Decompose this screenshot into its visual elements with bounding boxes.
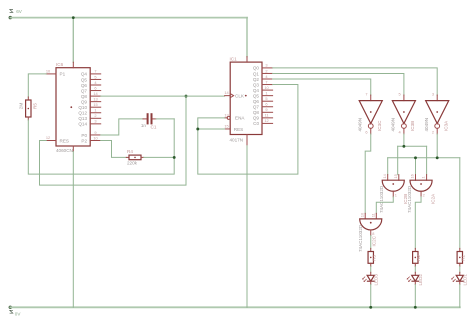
svg-text:4049N: 4049N bbox=[424, 118, 429, 132]
wire IC3A net to R1 bbox=[459, 158, 461, 249]
IC6 4060 counter body bbox=[56, 62, 90, 153]
inverter IC3A bbox=[424, 91, 449, 134]
IC1 pin ENA (13) bbox=[224, 112, 245, 120]
junction on 6V rail at IC6 VDD bbox=[72, 16, 75, 19]
IC1 right pins Q0-Q9,C0 bbox=[262, 68, 273, 124]
svg-text:11: 11 bbox=[264, 113, 268, 118]
wire Q2 to IC3C bbox=[273, 79, 371, 95]
svg-text:5: 5 bbox=[94, 74, 96, 79]
svg-text:LED2: LED2 bbox=[418, 274, 423, 286]
wire R3 to LED3 bbox=[370, 266, 372, 272]
svg-text:R4: R4 bbox=[127, 149, 133, 154]
junction IC3B output node bbox=[402, 145, 405, 148]
svg-text:4049N: 4049N bbox=[358, 118, 363, 132]
IC1 right pin numbers bbox=[264, 63, 269, 124]
svg-text:13: 13 bbox=[224, 112, 228, 117]
wire P2 to R4 bbox=[101, 141, 127, 158]
svg-text:Q14: Q14 bbox=[78, 122, 87, 127]
svg-text:11: 11 bbox=[370, 213, 375, 217]
svg-text:RES: RES bbox=[234, 127, 243, 132]
svg-text:7: 7 bbox=[94, 69, 96, 74]
IC6 VDD pin stub bbox=[72, 62, 74, 67]
svg-text:0V: 0V bbox=[15, 312, 22, 317]
junction oscillator node bbox=[173, 156, 176, 159]
svg-text:Q2: Q2 bbox=[253, 77, 260, 82]
svg-text:Q5: Q5 bbox=[81, 77, 88, 82]
svg-text:C0: C0 bbox=[253, 121, 259, 126]
wire R4 to oscillator node bbox=[144, 156, 175, 158]
svg-text:Q7: Q7 bbox=[253, 105, 260, 110]
resistor R3 bbox=[368, 248, 376, 266]
wire IC2C out to R3 bbox=[370, 236, 372, 249]
svg-text:5: 5 bbox=[265, 96, 267, 101]
wire IC3C out to IC2C input A bbox=[365, 134, 371, 213]
wire IC3A net horizontal bbox=[388, 157, 460, 159]
svg-text:8: 8 bbox=[372, 231, 374, 236]
svg-text:2: 2 bbox=[432, 129, 434, 134]
IC6 pin P1 (10) bbox=[46, 68, 66, 76]
svg-text:1: 1 bbox=[265, 90, 267, 95]
svg-text:IC3A: IC3A bbox=[443, 120, 448, 131]
svg-text:4049N: 4049N bbox=[391, 118, 396, 132]
svg-text:LED1: LED1 bbox=[463, 274, 468, 286]
svg-text:2M: 2M bbox=[19, 103, 24, 110]
svg-text:Q4: Q4 bbox=[81, 72, 88, 77]
wire IC1 VSS to 0V rail bbox=[246, 146, 248, 308]
wire Q3 reset loop bbox=[198, 85, 298, 175]
OR gate IC2A bbox=[407, 174, 436, 213]
IC6 VSS pin stub bbox=[72, 146, 74, 152]
IC6 right pin names bbox=[78, 72, 87, 144]
supply 6V symbol bbox=[9, 9, 23, 20]
LED LED1 bbox=[451, 272, 467, 285]
svg-text:1: 1 bbox=[421, 176, 426, 178]
junction ENA/RES node bbox=[196, 128, 199, 131]
svg-text:CLK: CLK bbox=[235, 93, 245, 98]
svg-text:IC3B: IC3B bbox=[410, 121, 415, 131]
wire LED1 to 0V rail bbox=[459, 285, 461, 308]
svg-text:IC2A: IC2A bbox=[431, 193, 436, 204]
IC6 pin RES (12) bbox=[46, 135, 69, 143]
svg-text:1n: 1n bbox=[141, 123, 147, 128]
svg-text:LED3: LED3 bbox=[374, 274, 379, 286]
wire IC6 Q8 to IC1 CLK bbox=[101, 95, 225, 97]
svg-text:15: 15 bbox=[93, 102, 97, 107]
supply 0V symbol bbox=[9, 306, 22, 317]
svg-text:ENA: ENA bbox=[235, 116, 245, 121]
resistor R2 bbox=[413, 248, 421, 266]
svg-text:1: 1 bbox=[395, 192, 397, 197]
svg-text:6: 6 bbox=[94, 85, 96, 90]
svg-text:Q1: Q1 bbox=[253, 71, 260, 76]
wire VDD drop to IC6 bbox=[72, 18, 74, 63]
svg-text:74AC11032D: 74AC11032D bbox=[379, 185, 384, 213]
svg-text:IC2C: IC2C bbox=[372, 235, 377, 246]
LED LED2 bbox=[407, 272, 423, 285]
svg-text:6V: 6V bbox=[16, 9, 23, 14]
svg-text:7: 7 bbox=[365, 91, 367, 96]
svg-text:3: 3 bbox=[432, 91, 434, 96]
svg-text:4060CN: 4060CN bbox=[56, 148, 73, 153]
svg-text:Q3: Q3 bbox=[253, 82, 260, 87]
svg-text:74AC11032D: 74AC11032D bbox=[407, 185, 412, 213]
net 0V rail wire bbox=[10, 306, 460, 308]
svg-text:3: 3 bbox=[94, 119, 96, 124]
wire IC2A out to R2 bbox=[415, 197, 421, 249]
svg-text:6: 6 bbox=[265, 102, 267, 107]
svg-text:Q9: Q9 bbox=[253, 116, 260, 121]
svg-text:3: 3 bbox=[265, 63, 267, 68]
svg-text:R1: R1 bbox=[460, 255, 465, 261]
junction LED2 at rail bbox=[414, 306, 417, 309]
inverter IC3B bbox=[391, 91, 416, 134]
wire ENA jog bbox=[198, 118, 225, 129]
wire IC3B net to IC2A input B bbox=[426, 146, 428, 174]
IC1 4017 counter body bbox=[230, 57, 263, 143]
wire IC3B net horizontal bbox=[398, 145, 427, 147]
svg-text:9: 9 bbox=[265, 107, 267, 112]
resistor R1 bbox=[457, 248, 465, 266]
wire IC3A out node bbox=[436, 134, 438, 158]
svg-text:RES: RES bbox=[60, 138, 69, 143]
junction IC3A net at IC2A input bbox=[414, 156, 417, 159]
svg-text:Q8: Q8 bbox=[253, 110, 260, 115]
svg-text:15: 15 bbox=[224, 124, 228, 129]
svg-text:Q8: Q8 bbox=[81, 94, 88, 99]
net 6V rail wire bbox=[10, 17, 247, 19]
svg-text:7: 7 bbox=[265, 79, 267, 84]
svg-text:P2: P2 bbox=[81, 138, 87, 143]
svg-text:Q13: Q13 bbox=[78, 116, 87, 121]
junction LED3 at rail bbox=[369, 306, 372, 309]
svg-text:220k: 220k bbox=[127, 161, 138, 166]
svg-text:P1: P1 bbox=[60, 72, 66, 77]
svg-text:6: 6 bbox=[365, 129, 367, 134]
wire IC2B out to IC2C input B bbox=[376, 197, 393, 214]
svg-text:16: 16 bbox=[410, 174, 415, 178]
svg-text:4017N: 4017N bbox=[230, 137, 244, 142]
wire IC3A net to IC2B input A bbox=[387, 158, 389, 175]
IC1 VDD pin stub bbox=[246, 57, 248, 63]
junction node on Q8 wire bbox=[185, 95, 188, 98]
svg-text:9: 9 bbox=[94, 130, 96, 135]
wire R5 to oscillator node bbox=[28, 119, 174, 174]
wire RES to junction bbox=[198, 128, 225, 130]
IC6 right pin numbers bbox=[93, 69, 98, 141]
capacitor C1 bbox=[141, 113, 157, 129]
inverter IC3C bbox=[358, 91, 383, 134]
svg-text:IC1: IC1 bbox=[230, 57, 238, 62]
svg-text:Q5: Q5 bbox=[253, 93, 260, 98]
svg-text:5: 5 bbox=[399, 91, 401, 96]
wire IC6 RES loop bbox=[40, 96, 187, 185]
svg-text:R5: R5 bbox=[33, 103, 38, 109]
svg-text:Q12: Q12 bbox=[78, 111, 87, 116]
wire VDD drop to IC1 bbox=[246, 18, 248, 57]
svg-text:15: 15 bbox=[393, 174, 398, 178]
wire R2 to LED2 bbox=[414, 266, 416, 272]
svg-text:2: 2 bbox=[423, 192, 425, 197]
OR gate IC2B bbox=[379, 173, 408, 213]
svg-text:C1: C1 bbox=[151, 125, 157, 130]
svg-text:74AC11032D: 74AC11032D bbox=[358, 224, 363, 252]
svg-text:Q4: Q4 bbox=[253, 88, 260, 93]
wire LED3 to 0V rail bbox=[370, 285, 372, 308]
svg-text:Q6: Q6 bbox=[81, 83, 88, 88]
svg-text:1: 1 bbox=[94, 108, 96, 113]
IC1 right pin names bbox=[253, 66, 260, 127]
wire Q1 to IC3B bbox=[273, 73, 404, 95]
svg-text:Q6: Q6 bbox=[253, 99, 260, 104]
wire IC3A net to IC2A input A bbox=[415, 158, 417, 175]
svg-text:12: 12 bbox=[46, 135, 50, 140]
wire C1 to oscillator node bbox=[156, 118, 174, 120]
resistor R5 bbox=[19, 97, 38, 120]
wire Q0 to IC3A bbox=[273, 68, 438, 95]
svg-text:Q0: Q0 bbox=[253, 66, 260, 71]
wire R1 to LED1 bbox=[459, 266, 461, 272]
LED LED3 bbox=[362, 272, 378, 285]
junction IC3A output node bbox=[436, 156, 439, 159]
wire P0 to C1 bbox=[101, 119, 143, 135]
IC6 right pins Q4-Q14,P0,P2 bbox=[90, 74, 101, 141]
wire IC3B out node bbox=[403, 134, 405, 146]
wire P1 to R5 bbox=[28, 74, 46, 97]
svg-text:Q7: Q7 bbox=[81, 88, 88, 93]
resistor R4 bbox=[126, 149, 143, 166]
svg-text:2: 2 bbox=[94, 113, 96, 118]
wire LED2 to 0V rail bbox=[414, 285, 416, 308]
svg-text:P0: P0 bbox=[81, 133, 87, 138]
IC1 pin RES (15) bbox=[224, 124, 243, 132]
wire IC6 VSS to 0V rail bbox=[72, 152, 74, 308]
svg-text:R2: R2 bbox=[416, 255, 421, 261]
svg-text:13: 13 bbox=[93, 96, 97, 101]
OR gate IC2C bbox=[358, 212, 382, 252]
wire IC3B net to IC2B input B bbox=[397, 146, 399, 174]
svg-text:2: 2 bbox=[265, 68, 267, 73]
svg-text:IC6: IC6 bbox=[56, 62, 64, 67]
svg-text:IC3C: IC3C bbox=[377, 120, 382, 131]
svg-text:Q10: Q10 bbox=[78, 105, 87, 110]
svg-text:Q9: Q9 bbox=[81, 99, 88, 104]
svg-text:R3: R3 bbox=[371, 255, 376, 261]
IC1 VSS pin stub bbox=[246, 135, 248, 146]
IC1 pin CLK (14) bbox=[224, 90, 245, 98]
svg-text:12: 12 bbox=[264, 118, 268, 123]
